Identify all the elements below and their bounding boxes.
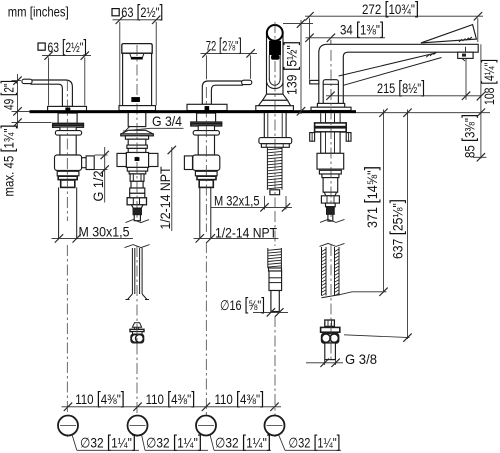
svg-text:110 [4⅜"]: 110 [4⅜"] — [75, 388, 125, 408]
svg-text:215 [8½"]: 215 [8½"] — [377, 77, 425, 97]
svg-text:∅32 [1¼"]: ∅32 [1¼"] — [289, 431, 341, 451]
svg-text:272 [10¾"]: 272 [10¾"] — [362, 0, 419, 18]
svg-text:mm [inches]: mm [inches] — [8, 4, 69, 20]
svg-text:72 [2⅞"]: 72 [2⅞"] — [206, 34, 242, 54]
svg-text:49 [2"]: 49 [2"] — [0, 80, 18, 110]
svg-text:G 3/8: G 3/8 — [345, 351, 377, 367]
svg-text:110 [4⅜"]: 110 [4⅜"] — [146, 388, 196, 408]
svg-text:637 [25⅛"]: 637 [25⅛"] — [387, 199, 407, 259]
svg-text:85 [3⅜"]: 85 [3⅜"] — [459, 114, 479, 158]
svg-text:139 [5½"]: 139 [5½"] — [281, 41, 301, 95]
svg-text:M 32x1,5: M 32x1,5 — [214, 193, 260, 209]
svg-text:M 30x1,5: M 30x1,5 — [79, 224, 130, 240]
svg-text:G 3/4: G 3/4 — [152, 113, 182, 129]
svg-text:34 [1⅜"]: 34 [1⅜"] — [340, 19, 384, 39]
svg-text:371 [14⅝"]: 371 [14⅝"] — [361, 166, 381, 228]
svg-text:∅32 [1¼"]: ∅32 [1¼"] — [215, 431, 271, 451]
svg-text:110 [4⅜"]: 110 [4⅜"] — [215, 388, 265, 408]
svg-text:∅32 [1¼"]: ∅32 [1¼"] — [146, 431, 202, 451]
svg-text:63 [2½"]: 63 [2½"] — [48, 36, 88, 56]
svg-text:max. 45 [1¾"]: max. 45 [1¾"] — [0, 125, 18, 197]
svg-text:G 1/2: G 1/2 — [90, 170, 106, 201]
svg-text:63 [2½"]: 63 [2½"] — [121, 1, 163, 21]
svg-text:∅32 [1¼"]: ∅32 [1¼"] — [80, 431, 136, 451]
svg-text:1/2-14 NPT: 1/2-14 NPT — [157, 166, 173, 229]
svg-text:∅16 [⅝"]: ∅16 [⅝"] — [220, 294, 265, 314]
